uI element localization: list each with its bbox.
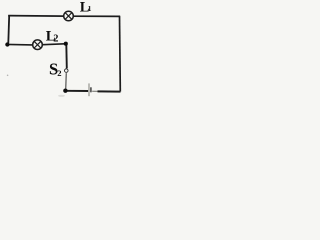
svg-text:1: 1 [88, 4, 92, 13]
svg-text:2: 2 [57, 68, 61, 78]
svg-text:2: 2 [53, 34, 58, 45]
